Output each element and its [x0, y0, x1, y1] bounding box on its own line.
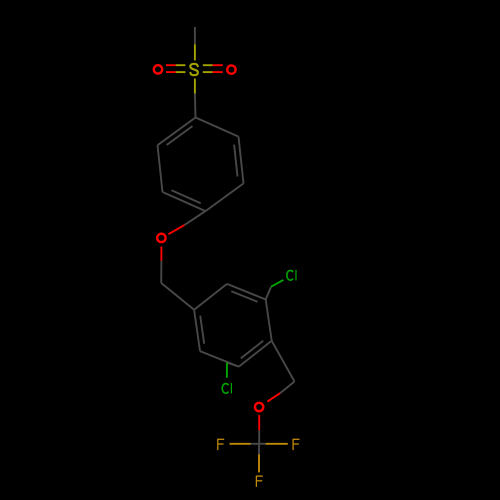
ether O down to CH2 bond: [160, 247, 162, 261]
F bottom label: [255, 476, 257, 487]
CF3 C-F bottom bond: [258, 444, 260, 455]
methyl C-S bond (CH3 top): [194, 27, 196, 44]
benzene ring 1 (methylsulfonyl phenyl): [158, 118, 244, 212]
ring1 to ether O bond: [184, 211, 205, 225]
CF3 C-F left bond: [251, 443, 260, 445]
CH2 to O2 ether bond: [280, 382, 295, 394]
CH2 to ring2 bond: [161, 283, 194, 310]
sulfonyl S=O left double bond: [166, 65, 185, 72]
O2 label (OCF3 oxygen): [255, 403, 263, 411]
Cl2 label: [222, 384, 228, 394]
sulfonyl O left label: [154, 65, 162, 73]
S to ring1 bond: [194, 79, 196, 94]
sulfonyl O right label: [227, 65, 235, 73]
ring2 to Cl1 bond: [266, 287, 271, 300]
CF3 C-F right bond: [259, 443, 265, 445]
Cl1 label: [287, 270, 293, 280]
O2 down to CF3 carbon bond: [258, 415, 260, 430]
sulfonyl S=O right double bond: [203, 65, 223, 72]
ring2 to Cl2 bond: [227, 363, 239, 367]
F right label: [292, 439, 294, 450]
F left label: [217, 439, 219, 450]
ring2 to CH2 (of CH2-O-CF3) bond: [272, 341, 295, 382]
ring 1 aromatic inner double bonds: [167, 126, 238, 203]
S atom label: [190, 64, 198, 75]
benzene ring 2 (dichloro phenyl): [194, 284, 272, 367]
ether O1 label: [157, 234, 165, 242]
ring 2 aromatic inner double bonds: [200, 291, 263, 358]
